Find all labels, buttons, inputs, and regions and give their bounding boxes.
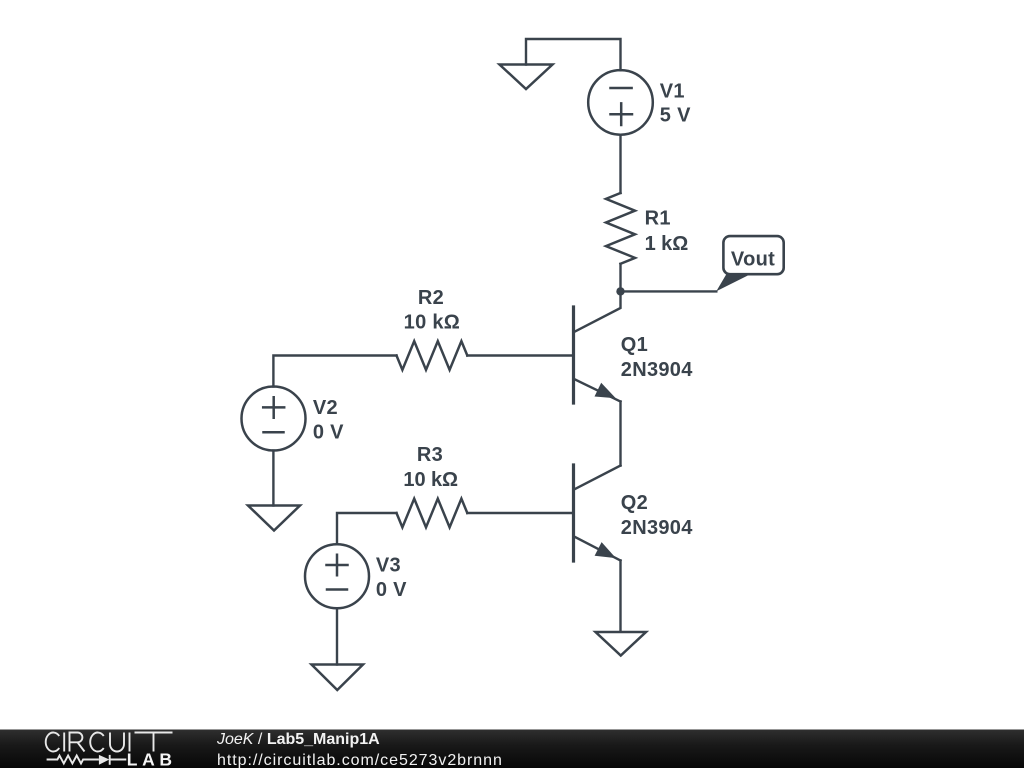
voltage source V1: [588, 70, 653, 135]
resistor R1: [606, 193, 635, 264]
transistor Q2 base bar: [572, 465, 575, 561]
wire V3 to R3 to Q2 base: [337, 513, 574, 544]
svg-text:R3: R3: [417, 444, 443, 466]
footer logo resistor-diode glyph: [47, 755, 127, 765]
footer logo CIRCUIT: [46, 733, 173, 752]
wire node to Vout: [621, 290, 717, 292]
transistor Q2 emitter: [574, 537, 621, 561]
ground GND2 under V2: [248, 506, 300, 531]
wire V1 to R1: [619, 135, 621, 193]
transistor Q1 base bar: [572, 307, 575, 403]
node A junction dot: [616, 287, 624, 295]
svg-text:R2: R2: [418, 287, 444, 309]
wire top ground to V1: [526, 39, 621, 70]
wire Q1 emitter to Q2 collector: [619, 402, 621, 466]
svg-text:2N3904: 2N3904: [621, 359, 693, 381]
wire Q1 collector: [574, 291, 621, 332]
svg-text:Q2: Q2: [621, 492, 648, 514]
Vout flag pointer: [716, 274, 750, 291]
Vout flag box: [723, 236, 783, 274]
transistor Q1 emitter arrow: [595, 383, 616, 399]
footer logo diode triangle: [99, 755, 109, 765]
svg-text:10 kΩ: 10 kΩ: [403, 469, 458, 491]
svg-text:2N3904: 2N3904: [621, 517, 693, 539]
svg-text:LAB: LAB: [127, 750, 177, 768]
wire Q2 emitter to ground: [619, 561, 621, 632]
svg-text:V3: V3: [376, 555, 401, 577]
wire V2 to R2 to Q1 base: [273, 356, 573, 387]
svg-text:1 kΩ: 1 kΩ: [645, 233, 689, 255]
svg-text:http://circuitlab.com/ce5273v2: http://circuitlab.com/ce5273v2brnnn: [217, 752, 503, 768]
footer bar: [0, 730, 1024, 768]
wire R1 to node: [619, 264, 621, 292]
transistor Q2 emitter arrow: [595, 542, 616, 558]
resistor R2: [397, 341, 468, 370]
svg-text:10 kΩ: 10 kΩ: [404, 312, 461, 334]
svg-text:V1: V1: [660, 81, 685, 103]
resistor R3: [397, 499, 468, 528]
svg-text:V2: V2: [313, 397, 338, 419]
wire V3 to ground: [336, 608, 338, 664]
voltage source V3: [305, 544, 369, 608]
ground GND3 under Q2: [596, 632, 647, 656]
ground GND1 top: [500, 65, 553, 90]
svg-text:JoeK / Lab5_Manip1A: JoeK / Lab5_Manip1A: [216, 731, 380, 748]
svg-text:0 V: 0 V: [376, 579, 407, 601]
voltage source V2: [242, 387, 306, 451]
svg-text:Vout: Vout: [731, 249, 775, 271]
wire V2 to ground: [272, 451, 274, 506]
svg-text:5 V: 5 V: [660, 105, 691, 127]
svg-text:R1: R1: [645, 208, 671, 230]
svg-text:Q1: Q1: [621, 334, 648, 356]
transistor Q1 emitter: [574, 379, 621, 402]
ground GND4 under V3: [312, 665, 364, 691]
wire Q2 collector diagonal: [574, 466, 621, 490]
svg-text:0 V: 0 V: [313, 422, 344, 444]
